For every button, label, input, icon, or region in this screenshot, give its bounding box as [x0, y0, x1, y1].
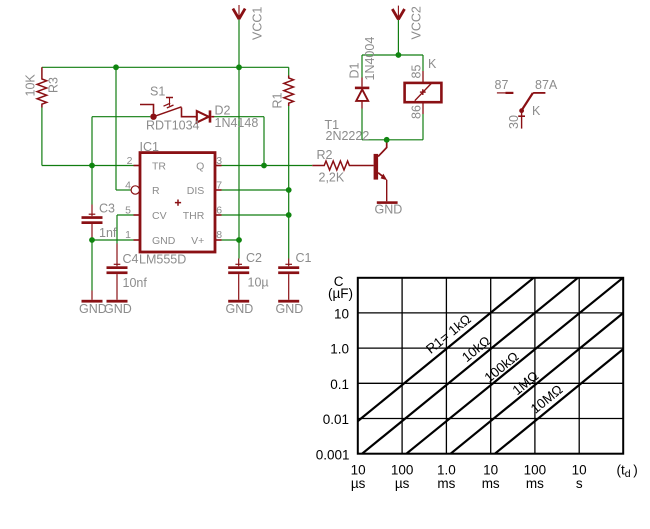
wire VCC1 vertical to V+	[238, 67, 240, 240]
wire T1 collector stub	[386, 140, 388, 144]
IC1 pin 2 stub	[134, 165, 141, 167]
relay K coil plus h	[420, 91, 426, 93]
svg-text:V+: V+	[191, 235, 204, 247]
svg-text:GND: GND	[104, 302, 132, 316]
svg-text:VCC2: VCC2	[410, 6, 424, 39]
svg-text:s: s	[576, 476, 583, 491]
node V+	[236, 237, 242, 243]
capacitor C2	[228, 259, 249, 300]
svg-text:GND: GND	[226, 302, 254, 316]
chart gridline v5	[578, 278, 580, 454]
IC1 pin 8 stub	[215, 239, 222, 241]
relay contact terminal 87	[497, 92, 506, 94]
wire C2 top stem	[238, 240, 240, 259]
svg-text:ms: ms	[526, 476, 544, 491]
svg-text:IC1: IC1	[140, 140, 160, 154]
IC1 pin 3 stub	[215, 165, 222, 167]
IC1 pin 1 stub	[134, 239, 141, 241]
switch S1 spring dash 2	[167, 105, 174, 108]
chart curve 1M	[451, 313, 624, 454]
CHART	[358, 278, 623, 454]
switch S1 left pin bracket	[140, 105, 154, 114]
svg-text:0.001: 0.001	[316, 447, 350, 462]
relay contact lever	[522, 93, 533, 111]
svg-text:LM555D: LM555D	[139, 253, 186, 267]
node THR	[286, 212, 292, 218]
switch S1 pole dot	[150, 114, 156, 120]
wire DIS row	[222, 189, 289, 191]
wire D2 branch vertical	[263, 117, 265, 166]
svg-text:10: 10	[334, 306, 349, 321]
svg-text:6: 6	[216, 204, 222, 216]
svg-text:10nf: 10nf	[123, 276, 148, 290]
wire S1 branch vertical	[91, 117, 93, 166]
relay K coil plus v	[422, 89, 424, 95]
node DIS	[286, 187, 292, 193]
node TR	[89, 163, 95, 169]
transistor T1 emitter arrow	[381, 174, 388, 181]
capacitor C1	[278, 259, 299, 300]
IC1 pin 6 stub	[215, 214, 222, 216]
wire relay loop top	[362, 54, 423, 56]
svg-text:D1: D1	[348, 62, 362, 78]
wire R3 bottom vertical	[41, 108, 43, 166]
wire C3 top stem	[91, 166, 93, 205]
svg-text:8: 8	[216, 229, 222, 241]
wire relay pin86 bottom	[422, 114, 424, 140]
diode D2 cathode bar	[209, 110, 212, 122]
diode D1 cathode bar	[355, 87, 369, 90]
power VCC1 arrow	[238, 5, 240, 20]
chart gridline v1	[401, 278, 403, 454]
node collector	[384, 137, 390, 143]
svg-text:GND: GND	[79, 302, 107, 316]
chart frame	[358, 278, 623, 454]
svg-text:(µF): (µF)	[328, 286, 353, 301]
power VCC2 arrow	[397, 6, 399, 20]
svg-text:1.0: 1.0	[330, 342, 349, 357]
transistor T1 emitter wire to gnd	[386, 180, 388, 202]
relay K pin 86 stub	[422, 102, 424, 114]
svg-text:GND: GND	[152, 235, 176, 247]
wire node to pin4 vertical	[115, 67, 117, 190]
wire relay pin85 top	[422, 55, 424, 71]
chart gridline h1	[358, 312, 623, 314]
wire VCC1 arrow to node	[238, 20, 240, 68]
ground symbol G4	[278, 300, 299, 303]
svg-text:5: 5	[125, 204, 131, 216]
svg-text:DIS: DIS	[187, 185, 205, 197]
wire R1 bottom to DIS/THR/C1 vertical	[288, 106, 290, 259]
svg-text:R2: R2	[317, 148, 333, 162]
svg-text:30: 30	[507, 115, 521, 129]
node VCC1	[236, 64, 242, 70]
svg-text:0.1: 0.1	[330, 377, 349, 392]
diode D2 triangle	[197, 111, 209, 122]
IC1 pin 7 stub	[215, 189, 222, 191]
svg-text:7: 7	[216, 180, 222, 192]
svg-text:µs: µs	[351, 476, 366, 491]
IC pin names and numbers	[125, 155, 222, 247]
ground bar under T1	[377, 201, 398, 204]
chart gridline h3	[358, 382, 623, 384]
chart curve 100k	[406, 278, 623, 454]
svg-text:RDT1034: RDT1034	[146, 119, 200, 133]
wire relay loop bottom	[362, 139, 423, 141]
ground symbol G2	[107, 300, 128, 303]
svg-text:S1: S1	[150, 85, 165, 99]
svg-text:2: 2	[127, 155, 133, 167]
node VCC2	[396, 52, 402, 58]
wire D2 cathode to Q net	[214, 116, 264, 118]
op-amp IC1 body LM555D	[140, 153, 215, 252]
transistor T1 base bar	[374, 154, 379, 180]
svg-text:2,2K: 2,2K	[319, 171, 345, 185]
svg-text:4: 4	[125, 180, 131, 192]
wire TR net horizontal	[42, 165, 134, 167]
svg-text:TR: TR	[152, 161, 166, 173]
diode D1 anode stub top	[361, 78, 363, 87]
capacitor C3	[82, 205, 103, 240]
svg-text:0.01: 0.01	[323, 412, 349, 427]
svg-text:1N4148: 1N4148	[215, 116, 259, 130]
diode D2 cathode stub	[211, 116, 214, 118]
relay contact pivot dot	[519, 108, 524, 113]
node Q	[261, 163, 267, 169]
JUNCTION-DOTS	[89, 52, 401, 243]
wire D1 bottom	[361, 109, 363, 140]
transistor T1 emitter diagonal	[378, 173, 385, 179]
wire THR row	[222, 214, 289, 216]
svg-text:86: 86	[410, 105, 424, 119]
ground symbol G1	[82, 291, 103, 303]
SCHEMATIC-COMPONENTS	[37, 5, 545, 303]
wire VCC1 top net horizontal	[42, 66, 289, 68]
relay K coil diagonal	[415, 84, 431, 101]
wire CV to C4	[116, 215, 118, 244]
svg-text:C1: C1	[296, 251, 312, 265]
chart gridline v2	[445, 278, 447, 454]
node top-left	[113, 64, 119, 70]
chart curve 10M	[495, 349, 623, 454]
relay contact terminal 87A	[533, 92, 545, 94]
svg-text:R3: R3	[47, 77, 61, 93]
switch S1 actuator stem	[169, 98, 171, 106]
svg-text:87: 87	[495, 78, 509, 92]
wire to pin4 R	[116, 189, 132, 191]
chart curve 10k	[362, 278, 578, 454]
svg-text:85: 85	[410, 65, 424, 79]
svg-text:K: K	[532, 104, 541, 118]
chart curve R1=1k	[358, 278, 534, 421]
svg-text:87A: 87A	[535, 78, 558, 92]
diode D1 triangle	[356, 89, 368, 101]
svg-text:1: 1	[125, 229, 131, 241]
IC1 pin 4 bubble	[131, 186, 139, 194]
relay K coil box	[405, 83, 442, 102]
wire C3 bottom to GND	[91, 240, 93, 291]
wire GND row pin1	[92, 239, 134, 241]
capacitor C4	[107, 244, 128, 300]
switch S1 actuator bar	[166, 97, 173, 99]
IC1 pin 5 stub	[134, 214, 141, 216]
svg-text:C3: C3	[99, 201, 115, 215]
svg-text:Q: Q	[196, 161, 204, 173]
resistor R3	[37, 67, 47, 107]
svg-text:C4: C4	[123, 252, 139, 266]
svg-text:R: R	[152, 185, 160, 197]
SCHEMATIC-LABELS	[24, 6, 558, 316]
svg-text:ms: ms	[482, 476, 500, 491]
diode D1 bottom stub	[361, 101, 363, 109]
resistor R2	[312, 161, 373, 170]
transistor T1 collector diagonal	[378, 143, 387, 157]
svg-text:1N4004: 1N4004	[363, 37, 377, 81]
switch S1 lever	[154, 107, 182, 117]
wire R1 top	[288, 67, 290, 75]
svg-text:VCC1: VCC1	[251, 7, 265, 40]
node GND-C3	[89, 237, 95, 243]
resistor R1	[284, 76, 294, 107]
svg-text:CV: CV	[152, 210, 167, 222]
svg-text:3: 3	[216, 155, 222, 167]
svg-text:10µ: 10µ	[248, 276, 269, 290]
chart gridline v4	[534, 278, 536, 454]
wire Q output net	[222, 165, 313, 167]
ground symbol G3	[228, 300, 249, 303]
svg-text:THR: THR	[183, 210, 205, 222]
relay contact crossbar	[518, 115, 525, 117]
relay K pin 85 stub	[422, 71, 424, 83]
svg-text:ms: ms	[437, 476, 455, 491]
chart gridline h4	[358, 418, 623, 420]
wire S1 branch horizontal	[92, 116, 150, 118]
svg-text:1nf: 1nf	[99, 226, 117, 240]
wire CV row pin5	[117, 214, 134, 216]
svg-text:C2: C2	[246, 251, 262, 265]
svg-text:K: K	[428, 57, 437, 71]
svg-text:R1: R1	[271, 92, 285, 108]
SCHEMATIC-WIRES	[42, 20, 423, 291]
relay contact terminal 30	[521, 111, 523, 129]
svg-text:µs: µs	[395, 476, 410, 491]
IC1 center plus	[175, 200, 181, 206]
svg-text:GND: GND	[375, 203, 403, 217]
svg-text:2N2222: 2N2222	[326, 129, 370, 143]
svg-text:10K: 10K	[24, 74, 38, 97]
switch S1 right pin	[182, 108, 197, 117]
wire D1 top	[361, 55, 363, 78]
chart gridline h2	[358, 347, 623, 349]
wire V+ row	[222, 239, 240, 241]
switch S1 spring dash 1	[164, 103, 171, 106]
chart gridline v3	[490, 278, 492, 454]
wire VCC2 arrow to node	[397, 20, 399, 55]
svg-text:GND: GND	[276, 302, 304, 316]
